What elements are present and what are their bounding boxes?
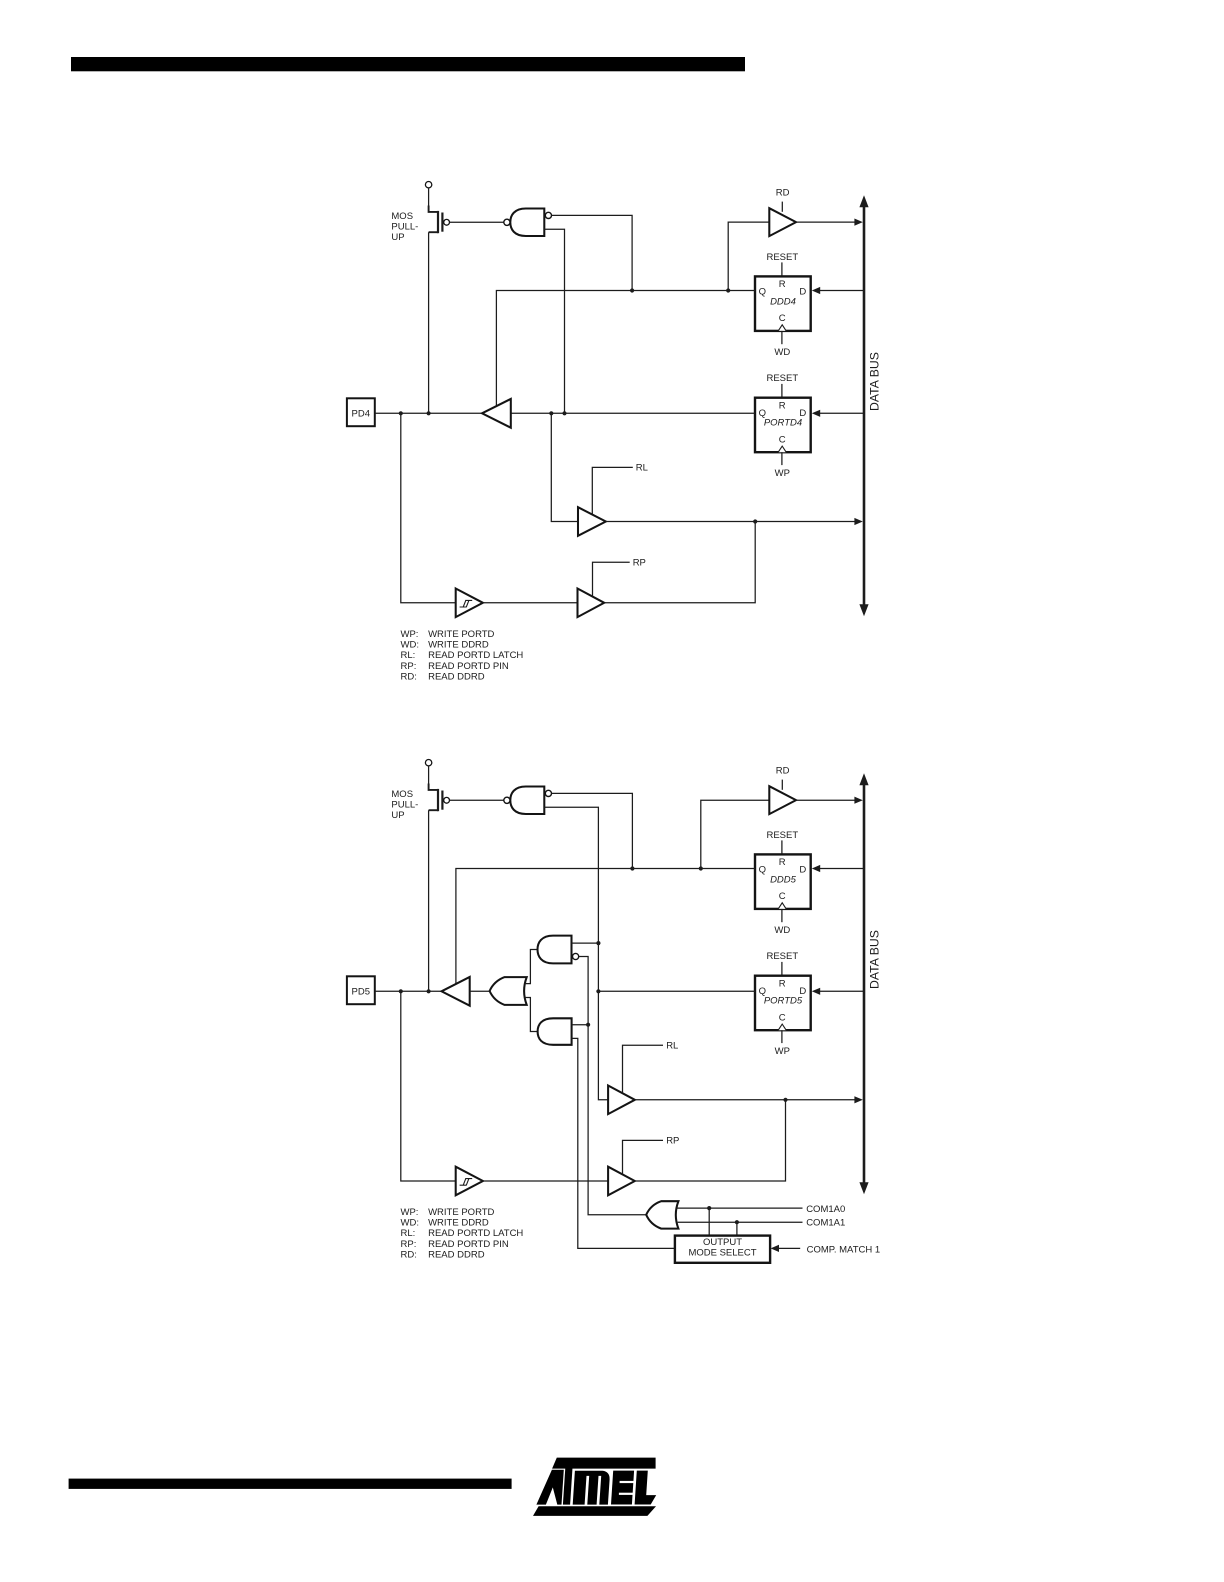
svg-text:RL:: RL: xyxy=(401,1228,416,1239)
svg-text:WP:: WP: xyxy=(401,1207,419,1218)
wire NAND output to transistor gate xyxy=(450,221,504,223)
junction RD input / DDD4 Q xyxy=(726,288,730,292)
svg-text:RD: RD xyxy=(776,766,790,777)
wire NAND top input to DDD4 Q net xyxy=(552,215,633,290)
tick RESET to PORTD5 xyxy=(781,962,783,976)
junction PORTD5 Q / AND gate input xyxy=(596,941,600,945)
wire NAND bottom input down to PORTD5 Q net xyxy=(544,807,608,1100)
junction COM1A1 / mode select xyxy=(735,1220,739,1224)
wire D input DDD5 from bus xyxy=(819,868,864,870)
wire AND A inverted input from mode OR xyxy=(579,957,647,1215)
tick RESET to DDD4 xyxy=(781,262,783,276)
junction RL/RP outputs (PD5) xyxy=(783,1098,787,1102)
svg-text:DDD4: DDD4 xyxy=(770,296,796,307)
svg-text:COM1A0: COM1A0 xyxy=(806,1204,845,1215)
flip-flop PORTD4 xyxy=(755,398,811,453)
pin box PD5 xyxy=(347,976,375,1004)
wire RL label leader (PD5) xyxy=(623,1045,664,1093)
data bus line (PORTD5 section) xyxy=(863,784,866,1184)
junction RL/RP outputs xyxy=(753,519,757,523)
arrowhead D input PORTD4 xyxy=(812,410,820,417)
tick WD clock xyxy=(781,331,783,344)
wire supply to transistor xyxy=(428,188,430,206)
svg-text:READ DDRD: READ DDRD xyxy=(428,1250,485,1261)
block OUTPUT MODE SELECT xyxy=(675,1236,770,1263)
NAND inverted input bubble xyxy=(545,790,551,796)
Atmel logo xyxy=(552,1458,656,1469)
svg-text:C: C xyxy=(779,435,786,446)
wire D input PORTD4 from bus xyxy=(819,412,864,414)
schmitt trigger input buffer xyxy=(456,589,483,618)
wire COM1A0 to mode select box xyxy=(708,1208,710,1236)
svg-text:RESET: RESET xyxy=(766,830,798,841)
svg-text:D: D xyxy=(799,865,806,876)
MOS pull-up transistor xyxy=(429,784,438,790)
svg-text:MODE SELECT: MODE SELECT xyxy=(688,1247,756,1258)
footer rule bar xyxy=(69,1479,512,1489)
wire RL buffer input from PD4 net xyxy=(551,413,578,521)
wire OR gate output to driver xyxy=(470,990,490,992)
schmitt hysteresis glyph xyxy=(460,600,473,607)
svg-text:PORTD4: PORTD4 xyxy=(764,418,802,429)
svg-text:R: R xyxy=(779,401,786,412)
svg-text:RP: RP xyxy=(666,1136,679,1147)
data bus top arrowhead xyxy=(859,773,868,785)
buffer RD (read DDRD, PD5) xyxy=(769,786,796,814)
buffer RP (read pin, PD5) xyxy=(608,1167,635,1196)
junction PD4 net / schmitt takeoff xyxy=(399,411,403,415)
NAND output bubble xyxy=(504,219,510,225)
junction PD5 net / pull-up xyxy=(427,989,431,993)
schmitt hysteresis glyph (PD5) xyxy=(460,1179,473,1186)
wire DDD5 Q net to output driver enable xyxy=(456,869,755,985)
schmitt trigger input buffer (PD5) xyxy=(456,1167,483,1196)
svg-text:UP: UP xyxy=(391,810,404,821)
pull-up supply terminal (open circle) xyxy=(425,760,431,766)
svg-text:PD4: PD4 xyxy=(352,409,370,420)
flip-flop DDD4 xyxy=(755,276,811,331)
wire transistor to PD4 net xyxy=(428,232,430,413)
svg-text:COM1A1: COM1A1 xyxy=(806,1218,845,1229)
junction PORTD5 Q net xyxy=(596,989,600,993)
wire RP label leader xyxy=(593,562,630,596)
junction PD4 net / pull-up xyxy=(427,411,431,415)
svg-text:WP: WP xyxy=(775,1046,790,1057)
pull-up supply terminal (open circle) xyxy=(425,182,431,188)
svg-text:RD:: RD: xyxy=(401,1250,417,1261)
svg-text:READ PORTD LATCH: READ PORTD LATCH xyxy=(428,650,523,661)
wire RP output joining RL output xyxy=(604,522,755,603)
flip-flop PORTD5 xyxy=(755,976,811,1030)
wire NAND bottom input down to PD4 net xyxy=(544,229,564,413)
svg-text:WRITE DDRD: WRITE DDRD xyxy=(428,1218,489,1229)
wire RD output to data bus xyxy=(796,221,855,223)
flip-flop DDD5 xyxy=(755,854,811,909)
svg-text:PD5: PD5 xyxy=(352,987,370,998)
arrowhead RL to bus (PD5) xyxy=(854,1096,862,1103)
svg-text:RESET: RESET xyxy=(766,252,798,263)
tri-state output driver (PD5) xyxy=(442,977,470,1006)
wire COM1A0 input xyxy=(676,1207,802,1209)
svg-text:READ PORTD PIN: READ PORTD PIN xyxy=(428,1239,509,1250)
junction NAND input / PD4 net xyxy=(562,411,566,415)
NAND inverted input bubble xyxy=(545,212,551,218)
svg-text:R: R xyxy=(779,279,786,290)
junction COM1A0 / mode select xyxy=(707,1206,711,1210)
svg-text:WD:: WD: xyxy=(401,640,419,651)
arrowhead D input DDD4 xyxy=(812,287,820,294)
wire schmitt to RP buffer xyxy=(483,602,578,604)
AND gate B (comparator path) xyxy=(538,1018,572,1045)
wire RP label leader (PD5) xyxy=(623,1140,664,1174)
svg-text:WRITE DDRD: WRITE DDRD xyxy=(428,640,489,651)
wire PD5 net (pin to driver) xyxy=(375,990,442,992)
svg-text:DATA BUS: DATA BUS xyxy=(868,352,882,411)
wire RD output to data bus (PD5) xyxy=(796,799,855,801)
svg-text:MOS: MOS xyxy=(391,789,413,800)
tick WP clock xyxy=(781,452,783,465)
svg-text:R: R xyxy=(779,979,786,990)
wire RD buffer input from DDD5 Q net xyxy=(701,800,770,868)
wire COM1A1 to mode select box xyxy=(736,1222,738,1235)
wire RL output to data bus (PD5) xyxy=(635,1099,855,1101)
arrowhead D input DDD5 xyxy=(812,865,820,872)
svg-text:READ DDRD: READ DDRD xyxy=(428,672,485,683)
junction NAND input / DDD4 Q xyxy=(630,288,634,292)
svg-text:UP: UP xyxy=(391,232,404,243)
svg-text:READ PORTD LATCH: READ PORTD LATCH xyxy=(428,1228,523,1239)
pin box PD4 xyxy=(347,398,375,426)
svg-text:PORTD5: PORTD5 xyxy=(764,996,803,1007)
svg-text:COMP. MATCH 1: COMP. MATCH 1 xyxy=(807,1244,881,1255)
buffer RL (read latch, PD5) xyxy=(608,1086,635,1115)
svg-text:RL: RL xyxy=(666,1041,678,1052)
svg-text:WD: WD xyxy=(774,347,790,358)
wire NAND output to transistor gate xyxy=(450,799,504,801)
svg-text:RESET: RESET xyxy=(766,951,798,962)
wire schmitt input from PD5 net xyxy=(401,991,456,1181)
junction NAND input / DDD5 Q xyxy=(630,866,634,870)
svg-text:Q: Q xyxy=(759,287,766,298)
buffer RL (read latch) xyxy=(578,507,606,536)
tick WP clock (PORTD5) xyxy=(781,1030,783,1043)
wire supply to transistor xyxy=(428,766,430,784)
junction RD input / DDD5 Q xyxy=(699,866,703,870)
wire DDD4 Q net to output driver enable xyxy=(496,291,755,407)
svg-text:RD: RD xyxy=(776,188,790,199)
svg-text:RP: RP xyxy=(633,558,646,569)
junction PD5 net / schmitt takeoff xyxy=(399,989,403,993)
tick RD enable (PD5) xyxy=(781,780,783,790)
AND gate A (PORTD5 path) xyxy=(538,936,572,964)
junction PD4 net / RL takeoff xyxy=(549,411,553,415)
svg-text:C: C xyxy=(779,313,786,324)
svg-text:C: C xyxy=(779,1013,786,1024)
tri-state output driver (PD4) xyxy=(482,399,511,428)
svg-text:DDD5: DDD5 xyxy=(770,874,797,885)
arrowhead RL to bus xyxy=(854,518,862,525)
wire transistor to PD5 net xyxy=(428,810,430,991)
wire D input DDD4 from bus xyxy=(819,290,864,292)
svg-text:PULL-: PULL- xyxy=(391,799,418,810)
svg-text:WD:: WD: xyxy=(401,1218,419,1229)
buffer RP (read pin) xyxy=(578,589,605,618)
svg-text:WD: WD xyxy=(774,925,790,936)
tick WD clock (DDD5) xyxy=(781,909,783,922)
MOS pull-up transistor xyxy=(429,206,438,212)
svg-text:D: D xyxy=(799,287,806,298)
arrowhead D input PORTD5 xyxy=(812,988,820,995)
tick RESET to DDD5 xyxy=(781,840,783,854)
wire PORTD5 Q to Q net xyxy=(598,990,755,992)
wire schmitt to RP buffer (PD5) xyxy=(483,1180,608,1182)
NAND gate U4a (pull-up enable) xyxy=(510,209,544,237)
svg-text:RL: RL xyxy=(636,463,648,474)
data bus line (PORTD4 section) xyxy=(863,206,866,606)
svg-text:READ PORTD PIN: READ PORTD PIN xyxy=(428,661,509,672)
svg-text:DATA BUS: DATA BUS xyxy=(868,930,882,989)
wire RL label leader xyxy=(592,467,633,514)
arrowhead RD to bus (PD5) xyxy=(854,797,862,804)
wire COM1A1 input xyxy=(678,1221,803,1223)
wire AND A top input from PORTD5 Q xyxy=(572,942,599,944)
svg-text:RESET: RESET xyxy=(766,373,798,384)
data bus bottom arrowhead xyxy=(859,1182,868,1194)
wire RP output joining RL output (PD5) xyxy=(635,1100,786,1181)
wire OR top input from AND gate A xyxy=(525,950,539,984)
top rule bar xyxy=(71,57,745,71)
wire AND B bottom input from mode select xyxy=(572,1038,675,1248)
arrowhead COMP. MATCH into box xyxy=(771,1245,779,1252)
svg-text:PULL-: PULL- xyxy=(391,221,418,232)
svg-text:RP:: RP: xyxy=(401,661,417,672)
svg-text:R: R xyxy=(779,857,786,868)
OR gate (mode mux) xyxy=(490,977,527,1005)
AND A inverted input bubble xyxy=(573,953,579,959)
arrowhead RD to bus xyxy=(854,219,862,226)
wire NAND top input to DDD5 Q net xyxy=(552,793,633,868)
wire D input PORTD5 from bus xyxy=(819,990,864,992)
tick RD enable xyxy=(781,202,783,212)
data bus top arrowhead xyxy=(859,195,868,207)
NAND gate U5a (pull-up enable) xyxy=(510,787,544,815)
junction mode enable / AND B input xyxy=(586,1023,590,1027)
svg-text:MOS: MOS xyxy=(391,211,413,222)
wire OR bottom input from AND gate B xyxy=(525,998,538,1032)
svg-text:WRITE PORTD: WRITE PORTD xyxy=(428,629,494,640)
OR gate (compare mode enable) xyxy=(646,1201,678,1228)
svg-text:RL:: RL: xyxy=(401,650,416,661)
NAND output bubble xyxy=(504,797,510,803)
wire RL output to data bus xyxy=(606,521,855,523)
svg-text:WRITE PORTD: WRITE PORTD xyxy=(428,1207,494,1218)
svg-text:WP:: WP: xyxy=(401,629,419,640)
wire PD4 net (pin to PORTD4 Q) xyxy=(375,412,755,414)
wire COMP. MATCH 1 input xyxy=(777,1247,800,1249)
wire AND B top input from mode enable xyxy=(572,1024,589,1026)
tick RESET to PORTD4 xyxy=(781,384,783,398)
svg-text:C: C xyxy=(779,891,786,902)
wire schmitt input from PD4 net xyxy=(401,413,456,603)
svg-text:RD:: RD: xyxy=(401,672,417,683)
buffer RD (read DDRD) xyxy=(769,208,796,236)
svg-text:WP: WP xyxy=(775,468,790,479)
data bus bottom arrowhead xyxy=(859,604,868,616)
svg-text:RP:: RP: xyxy=(401,1239,417,1250)
wire RD buffer input from DDD4 Q net xyxy=(728,222,769,290)
svg-text:Q: Q xyxy=(759,865,766,876)
